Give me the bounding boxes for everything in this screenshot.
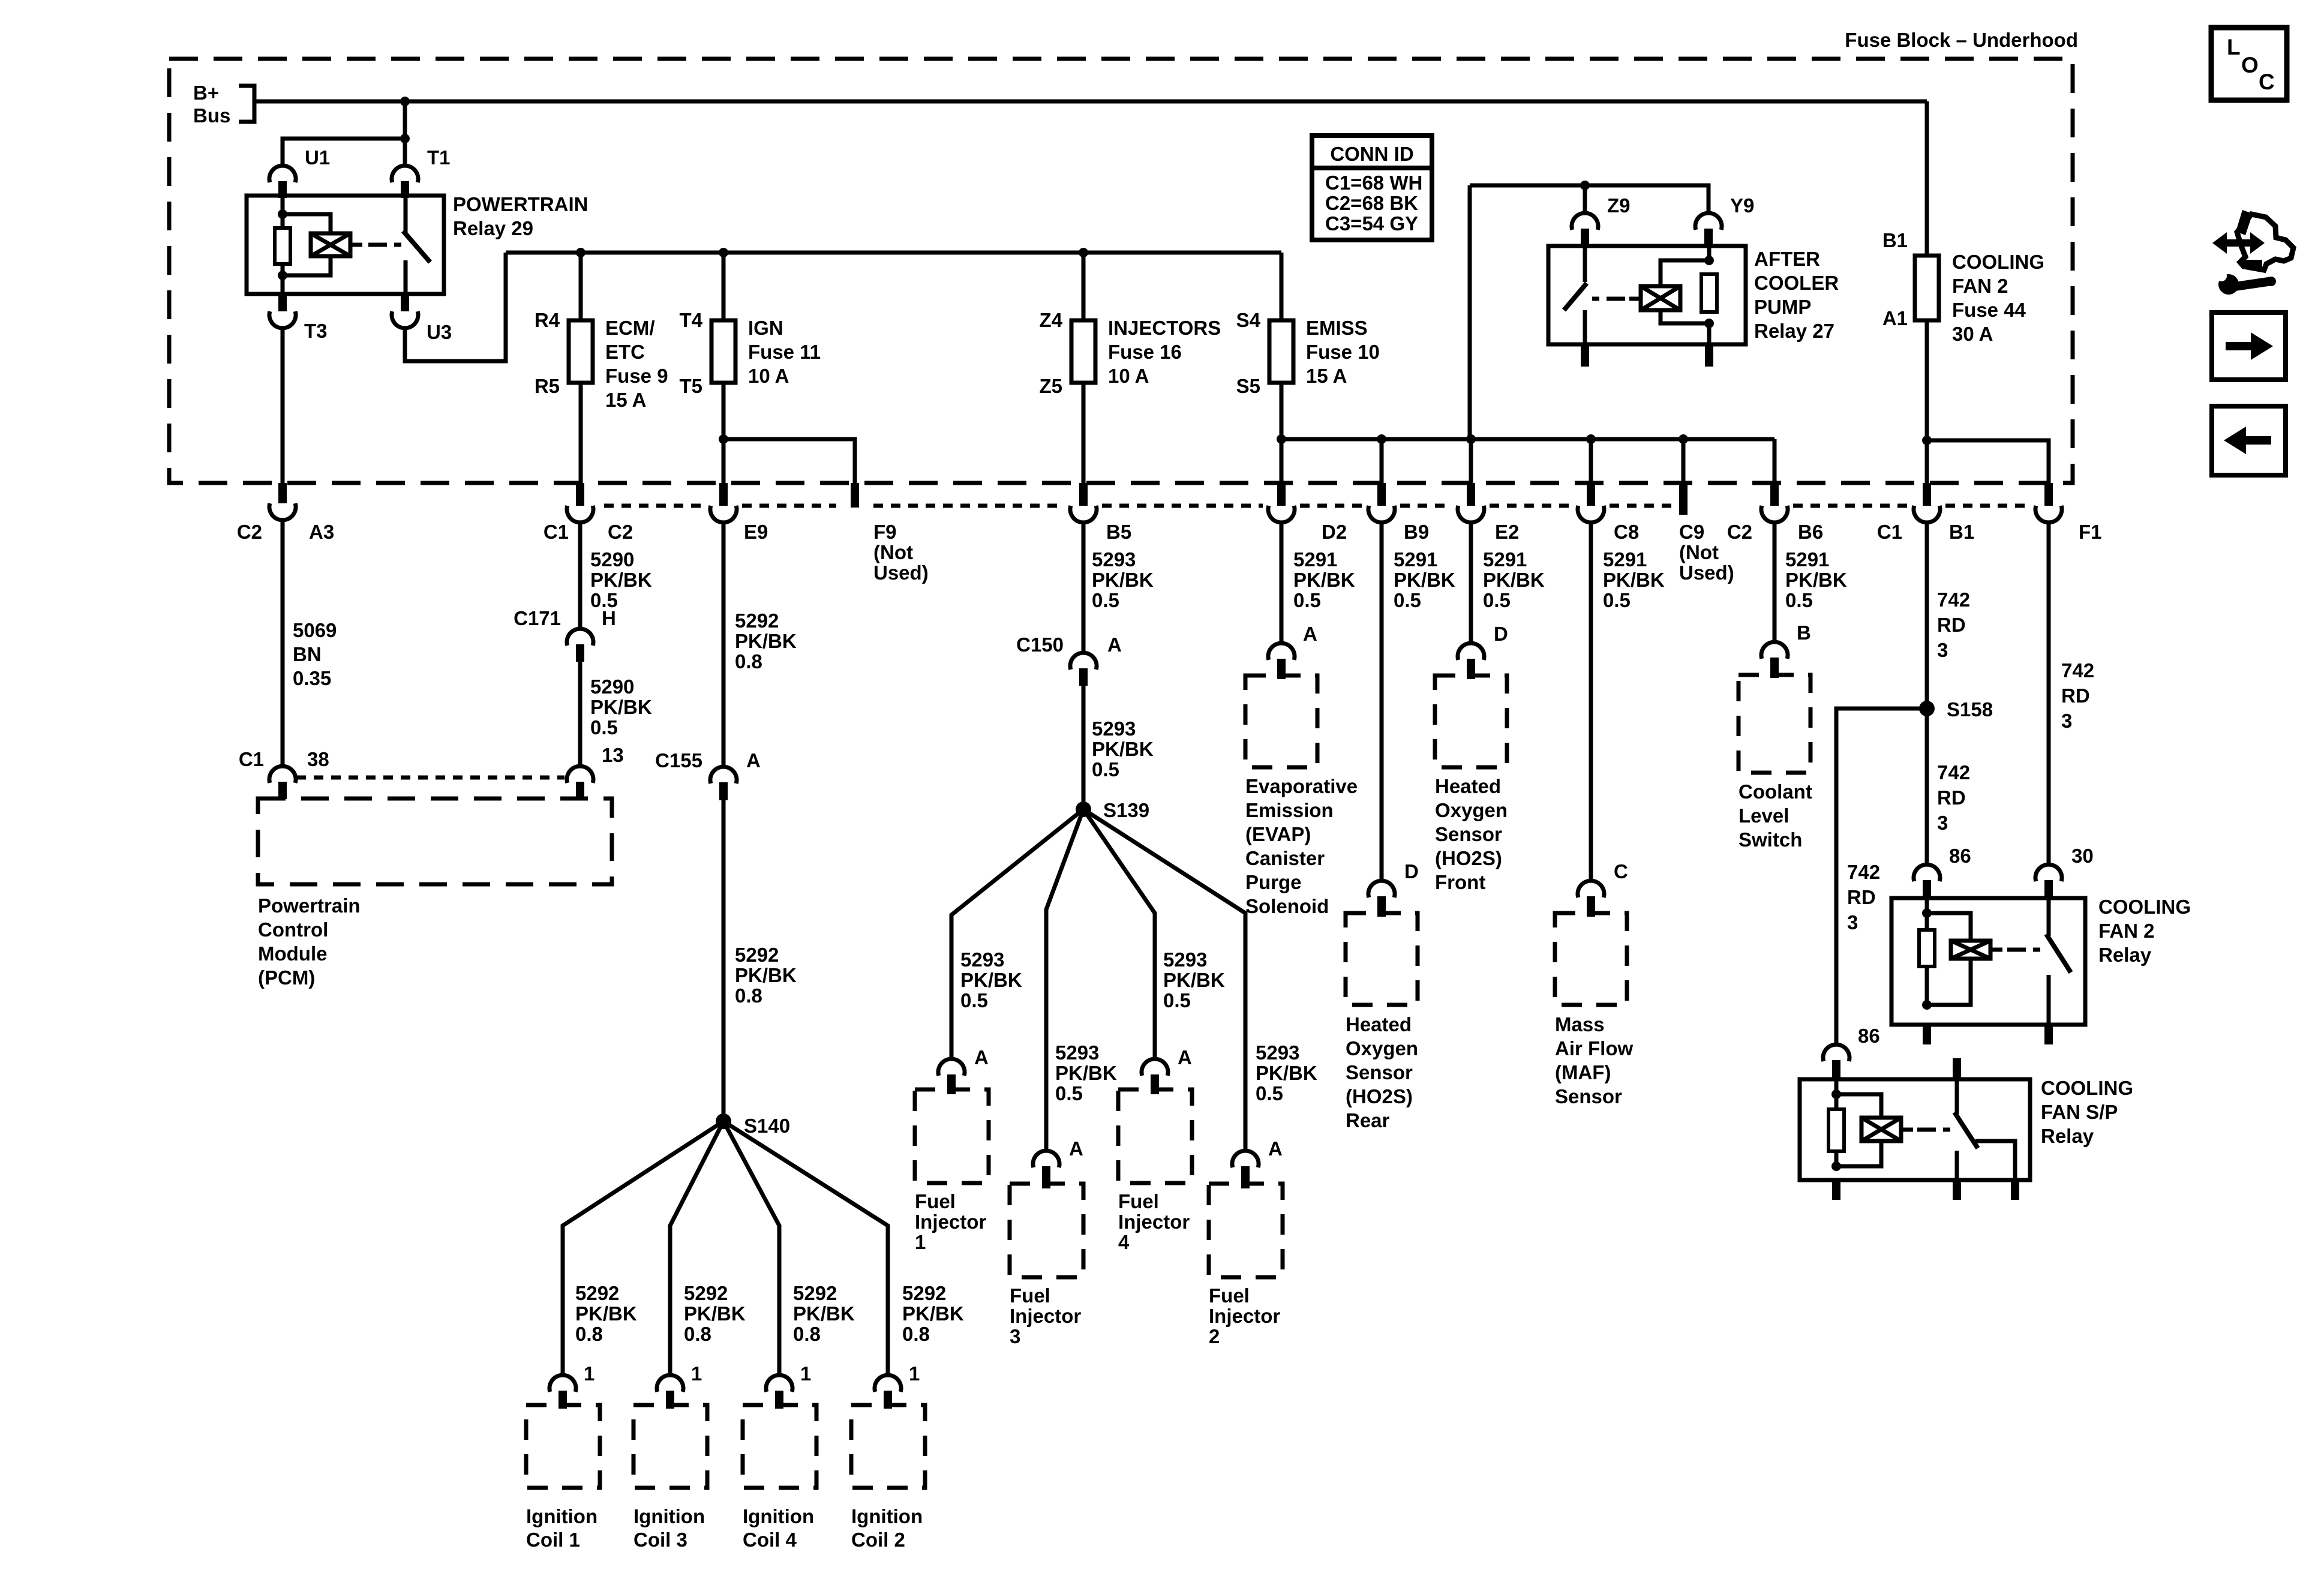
svg-text:5292: 5292 <box>793 1282 837 1304</box>
wire fused feed line <box>506 251 1281 255</box>
connector pin 1 of Ignition Coil 2 <box>875 1375 901 1392</box>
wire collector bus from EMISS fuse <box>1281 437 1774 442</box>
svg-text:86: 86 <box>1858 1025 1880 1047</box>
svg-text:0.5: 0.5 <box>1293 589 1321 611</box>
fan sp relay pin bottom left <box>1832 1180 1840 1200</box>
wire Z9 Y9 feed with corners <box>1470 185 1709 213</box>
svg-text:10 A: 10 A <box>748 365 789 387</box>
relay coil feed wire <box>281 196 285 228</box>
svg-text:PK/BK: PK/BK <box>1092 738 1154 760</box>
fuse block underhood dashed outline box <box>169 59 2073 483</box>
fan sp relay switch contact bottom <box>1955 1151 1959 1180</box>
wire out of fuse ECM/ <box>579 383 583 483</box>
svg-text:13: 13 <box>602 744 624 766</box>
junction dot fan2 relay top <box>1922 908 1932 918</box>
wire S140 to Ignition Coil 3 <box>670 1121 723 1375</box>
fan2 relay coil loop wires <box>1927 913 1971 941</box>
svg-text:C1: C1 <box>544 521 569 543</box>
svg-text:C155: C155 <box>655 749 702 772</box>
connector pin A of Fuel Injector 2 <box>1232 1151 1259 1167</box>
component Fuel Injector 2 dashed box <box>1209 1184 1283 1277</box>
svg-text:5293: 5293 <box>1256 1041 1299 1064</box>
svg-text:INJECTORS: INJECTORS <box>1108 317 1221 339</box>
svg-text:S5: S5 <box>1236 375 1260 397</box>
wire into fuse ECM/ <box>579 253 583 320</box>
svg-text:0.5: 0.5 <box>590 716 618 739</box>
svg-text:1: 1 <box>915 1231 926 1253</box>
svg-text:A: A <box>746 749 761 772</box>
svg-text:(HO2S): (HO2S) <box>1435 847 1502 869</box>
svg-text:C: C <box>2259 70 2275 94</box>
component MAF sensor dashed box <box>1555 913 1627 1005</box>
svg-text:(EVAP): (EVAP) <box>1245 823 1311 845</box>
connector B9 fuse block to harness <box>1377 483 1386 506</box>
svg-text:0.5: 0.5 <box>1055 1082 1083 1104</box>
fuse IGN Fuse 11 10 A symbol <box>711 320 735 383</box>
CONN ID table box <box>1312 136 1432 240</box>
after cooler relay actuator dashed linkage <box>1592 297 1599 301</box>
svg-text:5291: 5291 <box>1293 548 1337 571</box>
svg-text:T1: T1 <box>427 146 451 169</box>
wire 5291 PK/BK B9 segment <box>1380 523 1384 881</box>
svg-text:C8: C8 <box>1614 521 1639 543</box>
svg-text:C9: C9 <box>1679 521 1704 543</box>
svg-text:Z5: Z5 <box>1039 375 1062 397</box>
svg-text:C2: C2 <box>608 521 633 543</box>
icon previous page left arrow box <box>2212 406 2286 475</box>
svg-text:D: D <box>1404 860 1419 882</box>
connector pin C of MAF sensor <box>1578 881 1604 897</box>
junction dot fan2 relay bottom <box>1922 1000 1932 1010</box>
junction dot for U1 branch <box>400 134 410 143</box>
svg-text:COOLING: COOLING <box>2041 1077 2133 1099</box>
connector C9 not used pin <box>1679 483 1688 515</box>
svg-text:0.35: 0.35 <box>293 667 331 689</box>
connector C1 pin 13 at PCM <box>567 766 593 783</box>
connector C1 pin 38 at PCM <box>269 766 296 783</box>
wire Z9 tap down <box>1583 185 1587 213</box>
svg-text:Canister: Canister <box>1245 847 1325 869</box>
svg-text:Heated: Heated <box>1346 1013 1412 1035</box>
component HO2S front dashed box <box>1435 676 1507 767</box>
svg-text:U1: U1 <box>305 146 330 169</box>
svg-text:E2: E2 <box>1495 521 1519 543</box>
fan sp relay coil winding symbol <box>1861 1118 1901 1141</box>
wire 5291 PK/BK D2 segment <box>1280 523 1284 643</box>
svg-text:PK/BK: PK/BK <box>735 630 797 652</box>
wire from Z9 line down to collector bus <box>1468 185 1472 439</box>
svg-text:3: 3 <box>1937 812 1948 834</box>
svg-text:O: O <box>2241 53 2259 77</box>
wire 5292 PK/BK to splice S140 <box>722 800 726 1121</box>
svg-text:PK/BK: PK/BK <box>684 1302 746 1325</box>
B+ bus bracket <box>239 86 254 122</box>
svg-text:C1: C1 <box>239 748 264 770</box>
svg-text:FAN 2: FAN 2 <box>2098 920 2155 942</box>
splice S158 <box>1919 701 1935 716</box>
component Fuel Injector 3 dashed box <box>1010 1184 1083 1277</box>
svg-text:0.5: 0.5 <box>1394 589 1421 611</box>
svg-text:COOLER: COOLER <box>1754 272 1839 294</box>
after cooler relay switch pin bottom <box>1581 344 1589 367</box>
fan sp relay coil feed wire <box>1834 1079 1839 1109</box>
svg-text:C150: C150 <box>1016 634 1064 656</box>
wire 5290 PK/BK lower segment <box>578 662 582 766</box>
wire 742 RD from F1 <box>2047 523 2051 864</box>
wire S140 to Ignition Coil 1 <box>563 1121 723 1375</box>
svg-text:E9: E9 <box>744 521 768 543</box>
after cooler relay coil loop wires <box>1661 260 1709 286</box>
svg-text:Sensor: Sensor <box>1435 823 1502 845</box>
relay pin to T3 <box>278 294 287 311</box>
svg-text:1: 1 <box>800 1362 811 1385</box>
svg-text:Sensor: Sensor <box>1346 1061 1413 1083</box>
connector C150 pin A <box>1070 653 1097 670</box>
connector Z9 <box>1572 213 1598 230</box>
svg-text:Used): Used) <box>873 562 929 584</box>
svg-text:Level: Level <box>1739 804 1789 827</box>
resistor inside powertrain relay <box>275 228 290 264</box>
svg-text:Relay: Relay <box>2098 944 2152 966</box>
junction dot after cooler relay bottom <box>1704 319 1714 328</box>
svg-text:Fuse 11: Fuse 11 <box>748 341 821 363</box>
dotted in-line harness connector row <box>604 504 705 508</box>
svg-text:PK/BK: PK/BK <box>1483 569 1545 591</box>
wire S158 branch to fan SP relay <box>1836 709 1927 1044</box>
svg-text:0.8: 0.8 <box>735 650 762 673</box>
component HO2S rear dashed box <box>1346 913 1418 1005</box>
svg-text:Fuse 9: Fuse 9 <box>605 365 668 387</box>
component Ignition Coil 2 dashed box <box>851 1405 925 1488</box>
svg-text:A1: A1 <box>1882 307 1908 329</box>
svg-text:Ignition: Ignition <box>526 1505 597 1527</box>
svg-text:POWERTRAIN: POWERTRAIN <box>453 193 588 215</box>
junction dot E2 tap <box>1466 434 1476 444</box>
connector C8 fuse block to harness <box>1587 483 1595 506</box>
svg-text:PK/BK: PK/BK <box>590 569 652 591</box>
connector pin A of EVAP solenoid <box>1268 643 1295 660</box>
svg-text:PK/BK: PK/BK <box>793 1302 855 1325</box>
svg-text:U3: U3 <box>427 321 452 343</box>
wire 5069 BN to PCM pin 38 <box>281 520 285 766</box>
connector C1/B1 fuse block to harness <box>1923 483 1931 506</box>
svg-text:RD: RD <box>1937 614 1966 636</box>
connector C1/C2 fuse block to harness <box>576 483 584 506</box>
svg-text:A: A <box>1069 1137 1083 1160</box>
svg-text:S139: S139 <box>1103 799 1149 821</box>
after cooler relay switch lever <box>1564 283 1587 310</box>
connector E2 fuse block to harness <box>1467 483 1475 506</box>
wire U3 jog to fuse feed line <box>405 253 506 361</box>
junction dot C8 tap <box>1586 434 1596 444</box>
svg-text:T3: T3 <box>304 320 328 342</box>
resistor inside fan sp relay <box>1828 1109 1844 1151</box>
svg-text:Z9: Z9 <box>1607 194 1631 217</box>
wire branch to F9 <box>723 439 855 483</box>
svg-text:(PCM): (PCM) <box>258 966 315 989</box>
svg-text:Air Flow: Air Flow <box>1555 1037 1633 1059</box>
splice S140 <box>716 1113 731 1129</box>
relay switch lever <box>403 231 430 262</box>
svg-text:ECM/: ECM/ <box>605 317 655 339</box>
wire C8 tap down <box>1589 439 1593 483</box>
svg-text:Fuse Block – Underhood: Fuse Block – Underhood <box>1845 29 2078 51</box>
svg-text:R4: R4 <box>535 309 560 331</box>
component Ignition Coil 1 dashed box <box>526 1405 600 1488</box>
svg-text:Fuel: Fuel <box>1010 1284 1050 1307</box>
svg-text:742: 742 <box>1847 861 1880 883</box>
svg-text:0.8: 0.8 <box>902 1323 930 1345</box>
svg-text:0.5: 0.5 <box>1603 589 1631 611</box>
svg-text:30: 30 <box>2071 845 2094 867</box>
svg-text:30 A: 30 A <box>1952 323 1993 345</box>
svg-text:Injector: Injector <box>1010 1305 1081 1327</box>
wire C9 tap down <box>1682 439 1686 483</box>
svg-text:3: 3 <box>1010 1325 1020 1347</box>
fan2 relay coil winding symbol <box>1951 941 1990 959</box>
fan2 relay pin bottom left <box>1923 1025 1931 1044</box>
svg-text:B5: B5 <box>1106 521 1131 543</box>
svg-text:PK/BK: PK/BK <box>735 964 797 986</box>
wire out of fuse INJECTORS <box>1082 383 1086 483</box>
svg-text:(Not: (Not <box>873 541 913 563</box>
svg-text:0.8: 0.8 <box>793 1323 821 1345</box>
svg-text:5290: 5290 <box>590 548 634 571</box>
svg-text:5292: 5292 <box>575 1282 619 1304</box>
wire S140 to Ignition Coil 2 <box>723 1121 888 1375</box>
connector T3 of powertrain relay <box>269 311 296 328</box>
svg-text:742: 742 <box>1937 761 1970 784</box>
svg-text:F9: F9 <box>873 521 897 543</box>
svg-text:C171: C171 <box>514 607 561 629</box>
wire 5291 PK/BK E2 segment <box>1469 523 1473 643</box>
component Ignition Coil 3 dashed box <box>633 1405 707 1488</box>
svg-text:B1: B1 <box>1882 229 1908 251</box>
component Fuel Injector 4 dashed box <box>1118 1089 1192 1183</box>
svg-text:2: 2 <box>1209 1325 1220 1347</box>
svg-text:Relay 29: Relay 29 <box>453 217 533 239</box>
svg-text:Bus: Bus <box>193 104 230 127</box>
wire S139 to Fuel Injector 3 <box>1046 809 1083 1151</box>
svg-text:IGN: IGN <box>748 317 783 339</box>
svg-text:L: L <box>2227 35 2241 59</box>
svg-text:0.5: 0.5 <box>1163 989 1191 1011</box>
svg-text:B9: B9 <box>1404 521 1429 543</box>
svg-text:5293: 5293 <box>960 948 1004 971</box>
junction dot fuse44 to F1 branch <box>1922 436 1932 445</box>
wire S139 to Fuel Injector 1 <box>951 809 1083 1059</box>
fan2 relay switch contact bottom <box>2047 975 2051 1025</box>
after cooler relay coil feed wire <box>1707 246 1712 260</box>
svg-text:R5: R5 <box>535 375 560 397</box>
wire 5293 PK/BK upper segment <box>1082 523 1086 653</box>
after cooler relay coil winding symbol <box>1641 286 1680 310</box>
svg-text:742: 742 <box>1937 589 1970 611</box>
svg-text:A: A <box>1178 1046 1192 1068</box>
svg-text:5291: 5291 <box>1603 548 1647 571</box>
svg-text:3: 3 <box>2061 710 2072 732</box>
svg-text:Ignition: Ignition <box>633 1505 705 1527</box>
wire B+ bus down to Cooling Fan 2 fuse B1 <box>1925 101 1929 256</box>
svg-text:Injector: Injector <box>1209 1305 1280 1327</box>
svg-text:Control: Control <box>258 918 328 941</box>
fan sp relay switch NO contact wire <box>1975 1141 2015 1180</box>
fan sp relay pin bottom right <box>2011 1180 2019 1200</box>
svg-text:RD: RD <box>1937 787 1966 809</box>
svg-text:C2=68 BK: C2=68 BK <box>1325 192 1418 214</box>
svg-text:PK/BK: PK/BK <box>902 1302 964 1325</box>
svg-text:5293: 5293 <box>1092 548 1136 571</box>
svg-text:(Not: (Not <box>1679 541 1719 563</box>
svg-text:BN: BN <box>293 643 322 665</box>
svg-text:5291: 5291 <box>1483 548 1527 571</box>
svg-text:S140: S140 <box>744 1115 790 1137</box>
fuse COOLING FAN 2 Fuse 44 30A symbol <box>1915 256 1939 320</box>
wire B9 tap down <box>1380 439 1384 483</box>
connector F9 not used pin <box>851 483 859 508</box>
connector C2/B6 fuse block to harness <box>1770 483 1779 506</box>
CONN ID header separator <box>1312 166 1432 170</box>
svg-text:Module: Module <box>258 942 327 965</box>
connector pin B of coolant level switch <box>1761 642 1788 659</box>
splice S139 <box>1076 801 1091 817</box>
junction dot relay top <box>278 209 287 219</box>
connector pin 86 of cooling fan sp relay <box>1823 1044 1849 1061</box>
after cooler relay switch contact top <box>1583 246 1587 282</box>
svg-text:S158: S158 <box>1947 698 1993 721</box>
junction dot fan sp relay top <box>1831 1089 1841 1099</box>
relay switch fixed contact bottom <box>404 260 408 294</box>
wire out of fuse IGN <box>722 383 726 483</box>
svg-text:PK/BK: PK/BK <box>1394 569 1455 591</box>
wire S139 to Fuel Injector 4 <box>1083 809 1155 1059</box>
svg-text:A3: A3 <box>309 521 334 543</box>
svg-text:5291: 5291 <box>1394 548 1437 571</box>
connector pin A of Fuel Injector 4 <box>1142 1059 1168 1076</box>
svg-text:0.8: 0.8 <box>575 1323 603 1345</box>
svg-text:PK/BK: PK/BK <box>590 696 652 718</box>
relay actuator dashed linkage <box>368 243 387 247</box>
junction dot B9 tap <box>1377 434 1386 444</box>
svg-text:Relay 27: Relay 27 <box>1754 320 1834 342</box>
svg-text:Z4: Z4 <box>1039 309 1062 331</box>
svg-text:0.5: 0.5 <box>960 989 988 1011</box>
svg-text:B1: B1 <box>1949 521 1974 543</box>
fuse INJECTORS Fuse 16 10 A symbol <box>1071 320 1095 383</box>
fan sp relay switch contact stub top <box>1953 1058 1961 1079</box>
svg-text:S4: S4 <box>1236 309 1261 331</box>
connector pin 1 of Ignition Coil 3 <box>657 1375 683 1392</box>
relay switch fixed contact top <box>404 196 408 233</box>
wire B+ bus horizontal <box>254 100 1927 104</box>
svg-text:B6: B6 <box>1798 521 1823 543</box>
svg-text:PK/BK: PK/BK <box>1293 569 1355 591</box>
fan2 relay coil feed wire <box>1925 898 1929 930</box>
connector F1 fuse block to harness <box>2044 483 2053 506</box>
svg-text:AFTER: AFTER <box>1754 248 1820 270</box>
wire 5291 PK/BK C8 segment <box>1589 523 1593 881</box>
svg-text:Relay: Relay <box>2041 1125 2094 1147</box>
connector U3 of powertrain relay <box>392 311 418 328</box>
svg-text:Evaporative: Evaporative <box>1245 775 1358 797</box>
after cooler relay coil stub <box>1629 297 1641 301</box>
component Fuel Injector 1 dashed box <box>915 1089 989 1183</box>
svg-text:0.5: 0.5 <box>1092 589 1119 611</box>
svg-text:(MAF): (MAF) <box>1555 1061 1611 1083</box>
svg-text:86: 86 <box>1949 845 1971 867</box>
svg-text:Injector: Injector <box>915 1211 986 1233</box>
svg-text:Heated: Heated <box>1435 775 1501 797</box>
svg-text:PK/BK: PK/BK <box>960 969 1022 991</box>
svg-text:C: C <box>1614 860 1628 882</box>
fan sp relay coil stub <box>1901 1128 1913 1132</box>
junction dot after cooler relay top <box>1704 256 1714 265</box>
svg-text:38: 38 <box>307 748 329 770</box>
junction dot at IGN fuse <box>719 248 728 257</box>
svg-text:D: D <box>1494 623 1508 645</box>
svg-text:A: A <box>1268 1137 1283 1160</box>
fan sp relay actuator dashed linkage <box>1917 1128 1936 1132</box>
svg-text:RD: RD <box>2061 685 2090 707</box>
svg-text:Oxygen: Oxygen <box>1346 1037 1418 1059</box>
svg-text:PK/BK: PK/BK <box>1092 569 1154 591</box>
svg-text:3: 3 <box>1847 911 1858 933</box>
wire drop to T1 <box>403 101 407 166</box>
svg-text:COOLING: COOLING <box>1952 251 2044 273</box>
connector B5 fuse block to harness <box>1079 483 1088 506</box>
svg-text:Fuse 44: Fuse 44 <box>1952 299 2026 321</box>
wire into fuse INJECTORS <box>1082 253 1086 320</box>
svg-text:PK/BK: PK/BK <box>1256 1062 1317 1084</box>
svg-text:0.5: 0.5 <box>1785 589 1813 611</box>
after cooler relay switch contact bottom <box>1583 310 1587 344</box>
wire out of fuse EMISS <box>1280 383 1284 483</box>
svg-text:FAN 2: FAN 2 <box>1952 275 2008 297</box>
svg-text:Solenoid: Solenoid <box>1245 895 1329 917</box>
svg-text:15 A: 15 A <box>605 389 646 411</box>
svg-text:1: 1 <box>909 1362 920 1385</box>
svg-text:742: 742 <box>2061 659 2094 682</box>
resistor inside after cooler relay <box>1701 274 1717 312</box>
wire fuse 44 down to row <box>1925 320 1929 483</box>
svg-text:Powertrain: Powertrain <box>258 894 361 917</box>
svg-text:ETC: ETC <box>605 341 645 363</box>
wire 5292 PK/BK upper segment <box>722 523 726 767</box>
svg-text:C1=68 WH: C1=68 WH <box>1325 172 1422 194</box>
svg-text:C3=54 GY: C3=54 GY <box>1325 212 1418 235</box>
connector C171 pin H <box>567 629 593 646</box>
fuse ECM/ ETC Fuse 9 15 A symbol <box>569 320 593 383</box>
connector U1 of powertrain relay <box>269 166 296 182</box>
junction dot at INJECTORS fuse <box>1079 248 1088 257</box>
svg-text:F1: F1 <box>2079 521 2102 543</box>
svg-text:(HO2S): (HO2S) <box>1346 1085 1413 1107</box>
svg-text:A: A <box>1107 634 1122 656</box>
svg-text:D2: D2 <box>1322 521 1347 543</box>
connector C2/A3 fuse block to harness <box>278 483 287 503</box>
svg-text:Mass: Mass <box>1555 1013 1605 1035</box>
relay pin to U3 <box>401 294 409 311</box>
svg-text:Fuel: Fuel <box>1118 1190 1159 1212</box>
fuse EMISS Fuse 10 15 A symbol <box>1269 320 1293 383</box>
svg-text:Used): Used) <box>1679 562 1734 584</box>
svg-text:5293: 5293 <box>1092 718 1136 740</box>
junction dot at T1 drop <box>400 97 410 106</box>
fan sp relay pin bottom middle <box>1953 1180 1961 1200</box>
svg-text:COOLING: COOLING <box>2098 896 2191 918</box>
junction dot D2 <box>1277 434 1286 444</box>
wire E2 tap down <box>1469 439 1473 483</box>
